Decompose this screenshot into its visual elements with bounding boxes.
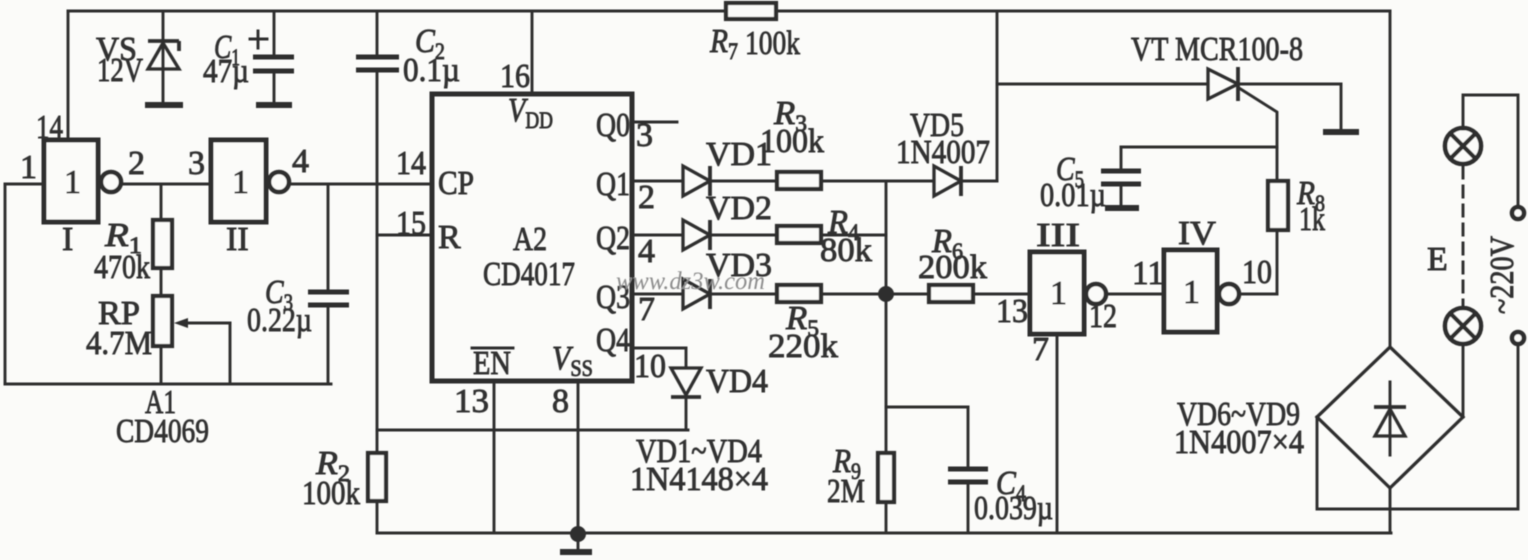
inverter gate IV — [1164, 250, 1217, 332]
junction dot R-summing node — [878, 286, 894, 302]
wire R-node horizontal to VD4 and R2 — [377, 429, 688, 432]
svg-text:4: 4 — [292, 143, 309, 180]
svg-text:10: 10 — [634, 348, 666, 385]
bridge rectifier VD6~VD9 — [1317, 347, 1463, 488]
svg-text:CP: CP — [438, 165, 474, 202]
pin 7 wire gate III to ground rail — [1056, 334, 1059, 533]
wire Q2 row — [632, 234, 683, 237]
capacitor C2 0.1u — [356, 57, 399, 70]
svg-text:8: 8 — [552, 383, 569, 420]
svg-text:1: 1 — [232, 164, 249, 201]
resistor R1 470k — [153, 220, 172, 268]
svg-text:14: 14 — [36, 109, 63, 146]
wire bottom ground rail — [377, 532, 1391, 535]
svg-text:47µ: 47µ — [203, 53, 249, 90]
bubble gate IV output — [1219, 284, 1239, 304]
svg-text:13: 13 — [996, 293, 1028, 330]
svg-text:12V: 12V — [97, 52, 143, 89]
wire R8 bottom to gate IV output — [1276, 231, 1279, 294]
wire gate I out to gate II in — [121, 183, 211, 186]
resistor R6 200k — [929, 285, 973, 302]
svg-text:R: R — [438, 219, 461, 256]
svg-text:1N4007×4: 1N4007×4 — [1174, 424, 1304, 461]
wire pin14 drop to gate I — [67, 11, 70, 140]
terminal circle top — [1512, 207, 1524, 219]
diode VD3 — [683, 279, 710, 309]
svg-text:11: 11 — [1132, 255, 1164, 292]
wiper arrow RP — [174, 318, 230, 384]
svg-text:III: III — [1036, 217, 1080, 254]
svg-text:Q4: Q4 — [596, 322, 630, 359]
wire Q1 row — [632, 180, 683, 183]
wire gate I input from feedback — [5, 183, 44, 186]
wire lamp top to 220V terminal — [1463, 95, 1518, 207]
SECTION-MIDDLE — [377, 3, 1391, 552]
ground bar SCR cathode — [1323, 129, 1359, 135]
svg-text:CD4017: CD4017 — [483, 256, 575, 293]
svg-text:0.1µ: 0.1µ — [403, 52, 460, 89]
diode VD1 — [683, 166, 710, 196]
svg-text:E: E — [1427, 241, 1448, 278]
wire C5 to gate node — [1121, 146, 1277, 149]
svg-text:1: 1 — [1183, 274, 1200, 311]
svg-text:1N4007: 1N4007 — [896, 134, 990, 171]
wire gate II out to CP — [289, 183, 432, 186]
svg-text:R7: R7 — [709, 23, 738, 64]
ground symbol — [560, 534, 592, 552]
svg-text:2: 2 — [128, 145, 145, 182]
svg-text:0.22µ: 0.22µ — [247, 302, 312, 339]
resistor R4 80k — [777, 226, 821, 243]
svg-text:1: 1 — [1050, 275, 1067, 312]
svg-text:I: I — [62, 221, 73, 258]
svg-text:VSS: VSS — [552, 340, 593, 381]
wire zener branch — [162, 11, 165, 104]
junction dot VSS ground — [570, 526, 586, 542]
ground bar C5 — [1105, 205, 1139, 211]
svg-text:3: 3 — [636, 117, 653, 154]
lamp E top — [1445, 128, 1481, 164]
wire RP bottom to rail — [160, 348, 163, 384]
capacitor C3 0.22u — [308, 292, 349, 305]
wire SCR anode from supply node — [997, 83, 1208, 86]
resistor R8 1k — [1268, 181, 1288, 230]
resistor R9 2M — [878, 453, 894, 502]
capacitor C4 0.039u — [948, 469, 988, 482]
svg-text:7: 7 — [1032, 331, 1049, 368]
dashed lamp string E — [1462, 167, 1465, 306]
wire VD5 to top rail — [996, 11, 999, 181]
wire VDD pin16 — [531, 11, 534, 94]
wire R1 drop — [160, 184, 163, 219]
svg-text:7: 7 — [638, 291, 655, 328]
diode VD5 1N4007 — [934, 166, 961, 196]
wire left feedback vertical — [4, 184, 7, 384]
wire SCR gate — [1239, 88, 1277, 180]
wire C1 branch — [273, 11, 276, 55]
svg-text:0.039µ: 0.039µ — [974, 490, 1053, 527]
wire bridge bottom to ground rail — [1389, 488, 1392, 533]
terminal circle bottom — [1512, 332, 1524, 344]
svg-text:16: 16 — [500, 58, 530, 95]
svg-text:Q0: Q0 — [596, 107, 630, 144]
svg-text:4.7M: 4.7M — [86, 325, 152, 362]
zener diode VS 12V — [145, 41, 183, 105]
IC A2 CD4017 — [432, 94, 632, 381]
svg-text:www.dz3w.com: www.dz3w.com — [616, 268, 765, 295]
svg-text:4: 4 — [638, 233, 655, 270]
bubble gate II output — [269, 172, 289, 192]
svg-text:0.01µ: 0.01µ — [1040, 177, 1106, 214]
svg-text:2M: 2M — [827, 473, 865, 510]
svg-text:~220V: ~220V — [1484, 236, 1521, 314]
resistor R7 100k on top rail — [726, 3, 776, 19]
wire R9 bottom — [885, 502, 888, 533]
wire bridge left AC to 220V terminal — [1317, 344, 1518, 509]
svg-text:1k: 1k — [1299, 201, 1325, 238]
svg-text:1N4148×4: 1N4148×4 — [630, 461, 768, 498]
svg-text:A2: A2 — [513, 221, 547, 258]
svg-text:CD4069: CD4069 — [116, 413, 209, 450]
wire VSS pin to ground rail — [577, 381, 580, 533]
svg-text:10: 10 — [1242, 254, 1272, 291]
diode VD2 — [683, 220, 710, 250]
wire Q4 row — [632, 347, 686, 350]
resistor R2 100k — [368, 453, 386, 501]
svg-text:1: 1 — [64, 164, 81, 201]
svg-text:1: 1 — [20, 149, 37, 186]
resistor R5 220k — [777, 285, 821, 302]
wire R1 to RP — [160, 270, 163, 295]
wire EN pin to ground rail — [493, 381, 496, 533]
wire gate IV output to R8 — [1239, 293, 1277, 296]
svg-text:VDD: VDD — [508, 92, 553, 133]
wire gate III to gate IV — [1106, 293, 1164, 296]
svg-text:470k: 470k — [94, 249, 150, 286]
wire C2 branch from rail down to R2 and ground rail — [376, 11, 379, 55]
svg-text:13: 13 — [454, 383, 489, 420]
svg-text:100k: 100k — [302, 475, 360, 512]
svg-text:II: II — [226, 221, 249, 258]
diode VD4 — [671, 368, 701, 430]
svg-text:80k: 80k — [820, 232, 872, 269]
svg-text:14: 14 — [396, 145, 426, 182]
capacitor C5 0.01u — [1101, 171, 1141, 184]
wire feedback bottom rail — [5, 383, 331, 386]
wire C4 branch — [886, 406, 968, 409]
wire R pin to C2 line — [377, 234, 432, 237]
lamp E bottom — [1445, 308, 1481, 344]
wire Q3 row — [632, 293, 683, 296]
svg-text:Q1: Q1 — [596, 166, 630, 203]
wire Q0 stub — [632, 121, 677, 124]
svg-text:VT MCR100-8: VT MCR100-8 — [1131, 31, 1303, 68]
svg-text:12: 12 — [1089, 298, 1117, 335]
resistor R3 100k — [777, 172, 821, 189]
svg-text:220k: 220k — [768, 328, 838, 365]
svg-text:VD4: VD4 — [706, 363, 768, 400]
capacitor C1 47u polarized — [250, 31, 294, 105]
svg-text:2: 2 — [638, 179, 655, 216]
svg-text:EN: EN — [473, 345, 511, 382]
potentiometer RP 4.7M — [153, 296, 172, 346]
svg-text:IV: IV — [1178, 215, 1216, 252]
svg-text:100k: 100k — [745, 25, 800, 62]
svg-text:VD2: VD2 — [706, 190, 772, 227]
wire summing node vertical — [885, 181, 888, 452]
bubble gate I output — [101, 172, 121, 192]
inverter gate III — [1030, 252, 1084, 334]
svg-text:3: 3 — [188, 145, 205, 182]
wire right edge from top rail to bridge — [1389, 11, 1392, 347]
inverter gate II — [211, 140, 266, 222]
svg-text:Q2: Q2 — [596, 220, 630, 257]
wire SCR cathode to ground — [1238, 83, 1341, 86]
wire top supply rail — [68, 10, 1390, 13]
thyristor VT MCR100-8 — [1208, 67, 1238, 101]
SECTION-RIGHT — [996, 11, 1524, 533]
svg-text:200k: 200k — [918, 249, 987, 286]
wire C3 drop — [327, 184, 330, 292]
inverter gate I — [44, 140, 98, 222]
bubble gate III output — [1086, 284, 1106, 304]
wire bridge right AC to lamp — [1462, 345, 1465, 417]
svg-text:100k: 100k — [760, 123, 824, 160]
